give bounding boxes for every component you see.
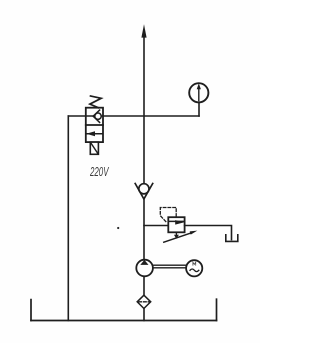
electric motor M: [186, 260, 202, 276]
check valve CV1: [135, 184, 153, 200]
wire gauge stem: [198, 102, 200, 116]
wire main pressure line upper: [143, 30, 145, 184]
junction dot artifact: [117, 227, 119, 229]
wire through valve port: [86, 115, 103, 117]
relief valve adjustment arrow: [164, 231, 198, 243]
relief valve spring stub arrow: [174, 232, 179, 239]
tank T1: [31, 299, 217, 320]
solenoid coil: [90, 142, 98, 154]
valve poppet seat and ball: [93, 110, 101, 122]
solenoid valve V1 body: [86, 108, 103, 142]
flow direction arrow: [141, 24, 146, 37]
motor shaft coupling: [153, 265, 186, 268]
wire filter to tank: [143, 309, 145, 321]
wire pump to filter: [143, 276, 145, 295]
relief valve RV pilot dashed line: [160, 208, 176, 222]
wire relief outlet: [185, 226, 232, 240]
pressure gauge PG: [189, 83, 208, 102]
svg-text:220V: 220V: [89, 165, 109, 180]
filter F1: [137, 295, 151, 308]
relief valve flow arrow: [169, 220, 185, 225]
wire left return branch: [67, 116, 69, 321]
valve spring: [90, 96, 101, 108]
valve flow arrow: [86, 131, 103, 136]
drain tank symbol: [226, 235, 238, 242]
wire main line lower: [143, 199, 145, 260]
relief valve RV body: [168, 217, 184, 232]
label 220V: [89, 165, 109, 180]
wire relief branch: [144, 225, 168, 227]
wire horizontal P line: [68, 115, 199, 117]
pump P1: [136, 260, 153, 277]
